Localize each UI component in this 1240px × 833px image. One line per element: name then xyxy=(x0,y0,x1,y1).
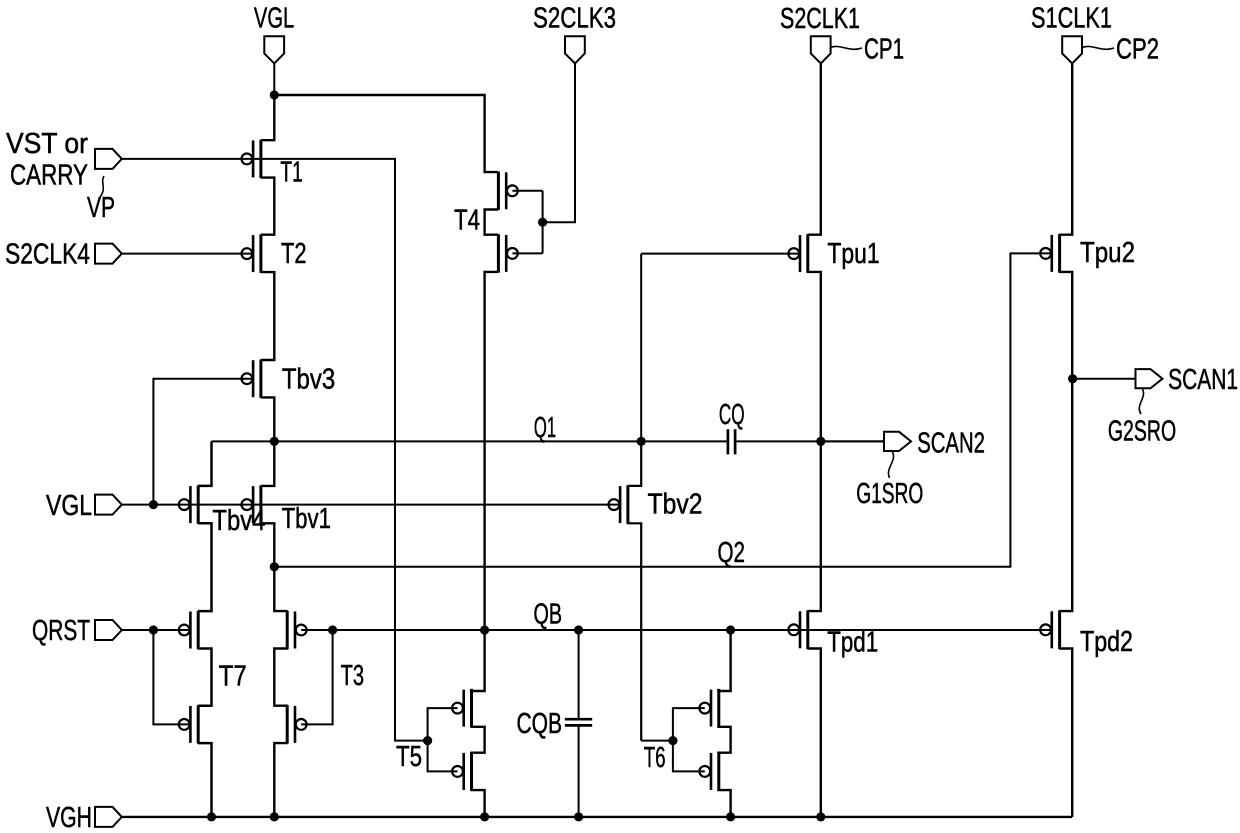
wire Tpu1 gate to Q1 xyxy=(641,254,800,442)
svg-text:Tbv3: Tbv3 xyxy=(282,364,335,396)
input terminal S2CLK4 xyxy=(95,244,122,264)
wire S2CLK4 to T2 gate xyxy=(122,253,253,255)
transistor T3 upper xyxy=(287,611,306,650)
input terminal VGL xyxy=(95,495,122,515)
power terminal VGL xyxy=(264,36,284,63)
leader line VP xyxy=(100,176,104,197)
svg-text:CARRY: CARRY xyxy=(10,160,88,192)
wire VGL input line to Tbv4 Tbv1 Tbv2 gates xyxy=(122,504,620,506)
wire Tbv4 drain to Q1 and Tbv4-T7 chain xyxy=(198,441,212,817)
wire main left rail T1-T2-Tbv3-Tbv1-T3 chain xyxy=(261,95,288,817)
transistor T7 upper xyxy=(179,611,198,650)
power terminal S2CLK1 xyxy=(811,36,831,63)
node SCAN2 junction xyxy=(816,437,825,446)
svg-text:T7: T7 xyxy=(219,660,247,692)
svg-text:Tpu1: Tpu1 xyxy=(827,238,879,270)
wire S2CLK3 to T4 gates xyxy=(512,63,575,253)
transistor Tbv4 xyxy=(179,485,198,523)
node VGL-Tbv3 gate junction xyxy=(149,500,158,509)
wire T3 gates to QB xyxy=(301,630,332,724)
wire node Q1 line xyxy=(212,440,885,442)
svg-text:S2CLK4: S2CLK4 xyxy=(5,239,90,271)
transistor Tbv1 xyxy=(242,485,261,523)
transistor Tpu1 xyxy=(788,234,807,273)
svg-text:VST or: VST or xyxy=(6,128,88,160)
svg-text:T4: T4 xyxy=(454,205,480,237)
wire CQB connection xyxy=(578,630,580,817)
transistor T4 lower xyxy=(498,234,517,273)
power terminal S1CLK1 xyxy=(1062,36,1082,63)
node VGH-T3 junction xyxy=(270,812,279,821)
wire VGL rail to T4 and T4-T5 drain chain xyxy=(274,95,498,817)
svg-text:CP2: CP2 xyxy=(1116,34,1159,66)
node T5 gate junction xyxy=(423,736,432,745)
svg-text:SCAN1: SCAN1 xyxy=(1168,364,1238,396)
leader line G1SRO xyxy=(888,452,893,478)
node VGL rail junction xyxy=(270,90,279,99)
svg-text:CQ: CQ xyxy=(719,399,745,431)
wire SCAN2 output xyxy=(821,440,884,442)
node QB-CQB junction xyxy=(574,625,583,634)
svg-text:Tbv2: Tbv2 xyxy=(648,489,703,521)
leader line CP1 xyxy=(831,46,863,49)
node Q1-rail junction xyxy=(270,437,279,446)
node Q2 junction xyxy=(270,562,279,571)
svg-text:S1CLK1: S1CLK1 xyxy=(1031,3,1112,35)
svg-text:VGH: VGH xyxy=(46,802,92,833)
node Q1-Tpu1 gate junction xyxy=(637,437,646,446)
svg-text:Tbv4: Tbv4 xyxy=(212,505,265,537)
wire Tbv3 gate to VGL line xyxy=(153,379,253,505)
svg-text:QRST: QRST xyxy=(32,615,90,647)
leader line G2SRO xyxy=(1139,389,1143,414)
svg-text:VGL: VGL xyxy=(254,2,294,34)
wire S1CLK1 Tpu2 Tpd2 chain xyxy=(1059,64,1072,817)
transistor Tbv2 xyxy=(609,485,628,523)
wire node Q2 line to Tpu2 gate xyxy=(274,253,1051,566)
svg-text:Tpd2: Tpd2 xyxy=(1080,626,1133,658)
svg-text:Tpd1: Tpd1 xyxy=(827,627,878,659)
svg-text:T1: T1 xyxy=(280,157,302,189)
svg-text:G2SRO: G2SRO xyxy=(1108,416,1176,448)
svg-text:VGL: VGL xyxy=(46,490,92,522)
svg-text:T2: T2 xyxy=(281,238,307,270)
wire VGL terminal stem xyxy=(273,63,275,95)
svg-text:SCAN2: SCAN2 xyxy=(917,427,985,459)
svg-text:G1SRO: G1SRO xyxy=(856,478,923,510)
wire S2CLK1 Tpu1 Tpd1 chain xyxy=(807,64,820,817)
node SCAN1 junction xyxy=(1068,374,1077,383)
svg-text:Q2: Q2 xyxy=(718,537,746,569)
power terminal S2CLK3 xyxy=(565,36,585,63)
input terminal VGH xyxy=(95,807,122,827)
wire T5 gate tie xyxy=(428,708,458,771)
svg-text:T5: T5 xyxy=(396,741,422,773)
node QB-T3 gate junction xyxy=(328,625,337,634)
wire Tbv2 drain to Q1 and source down xyxy=(627,441,641,740)
transistor Tpu2 xyxy=(1040,234,1059,273)
input terminal VST/CARRY xyxy=(95,149,122,169)
transistor T5 lower xyxy=(452,752,471,791)
transistor Tbv3 xyxy=(242,359,261,398)
output terminal SCAN1 xyxy=(1136,369,1163,388)
leader line CP2 xyxy=(1082,46,1114,49)
svg-text:CQB: CQB xyxy=(517,708,563,740)
node VGH-Tpd1 junction xyxy=(816,812,825,821)
svg-text:Tbv1: Tbv1 xyxy=(282,503,331,535)
wire QRST to T7 gates xyxy=(122,630,190,724)
node VGH-T5 junction xyxy=(480,812,489,821)
transistor T6 upper xyxy=(699,689,718,728)
svg-text:Q1: Q1 xyxy=(534,412,556,444)
svg-text:T6: T6 xyxy=(644,742,666,774)
node QB-T4/T5 junction xyxy=(480,625,489,634)
transistor T5 upper xyxy=(452,689,471,728)
transistor T7 lower xyxy=(179,705,198,744)
transistor Tpd1 xyxy=(788,611,807,650)
node T6 gate junction xyxy=(668,736,677,745)
capacitor CQB xyxy=(565,719,592,725)
node T4 gate junction xyxy=(538,218,547,227)
wire SCAN1 output xyxy=(1072,378,1135,380)
svg-text:S2CLK3: S2CLK3 xyxy=(533,3,616,35)
svg-text:S2CLK1: S2CLK1 xyxy=(780,3,860,35)
wire QB to T6 drain chain xyxy=(717,630,730,817)
transistor Tpd2 xyxy=(1040,611,1059,650)
transistor T3 lower xyxy=(287,705,306,744)
node QB-T6 junction xyxy=(726,625,735,634)
wire node QB line xyxy=(333,629,1052,631)
svg-text:QB: QB xyxy=(534,599,563,631)
wire node VGH line xyxy=(122,816,1072,818)
node VGH-T7 junction xyxy=(207,812,216,821)
node VGH-CQB junction xyxy=(574,812,583,821)
transistor T1 xyxy=(242,140,261,179)
transistor T2 xyxy=(242,234,261,273)
svg-text:Tpu2: Tpu2 xyxy=(1080,237,1135,269)
node QRST gate junction xyxy=(149,625,158,634)
svg-text:T3: T3 xyxy=(341,660,364,692)
input terminal QRST xyxy=(95,620,122,640)
wire T6 gate tie to Tbv2 source xyxy=(641,708,705,771)
output terminal SCAN2 xyxy=(884,432,911,451)
wire VST/CARRY to T1 gate and T5 gate xyxy=(122,159,427,741)
transistor T6 lower xyxy=(699,752,718,791)
svg-text:CP1: CP1 xyxy=(864,34,904,66)
transistor T4 upper xyxy=(498,172,517,211)
capacitor CQ xyxy=(728,429,735,454)
svg-text:VP: VP xyxy=(87,192,115,224)
node VGH-T6 junction xyxy=(726,812,735,821)
